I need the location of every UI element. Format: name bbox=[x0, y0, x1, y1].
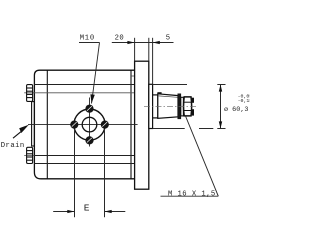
svg-text:Drain: Drain bbox=[1, 142, 25, 150]
svg-text:E: E bbox=[84, 202, 90, 213]
svg-text:M 16 X 1,5: M 16 X 1,5 bbox=[168, 191, 216, 199]
svg-text:M10: M10 bbox=[80, 34, 95, 42]
svg-text:20: 20 bbox=[115, 34, 125, 42]
svg-text:-0,15: -0,15 bbox=[238, 98, 250, 104]
svg-text:ø 60,3: ø 60,3 bbox=[224, 106, 248, 114]
svg-text:5: 5 bbox=[166, 34, 171, 42]
